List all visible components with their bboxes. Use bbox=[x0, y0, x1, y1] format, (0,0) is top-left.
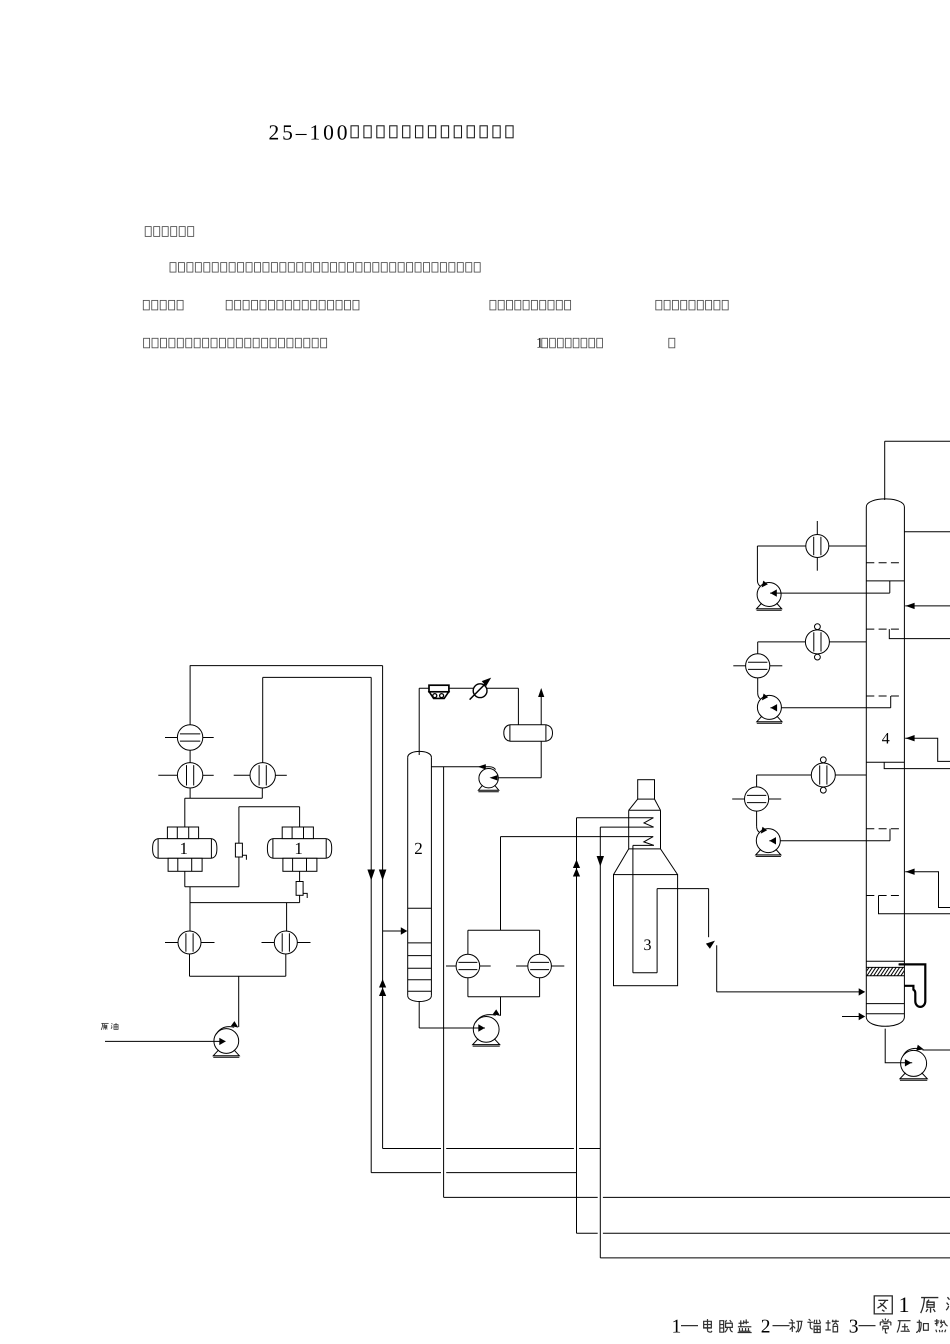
svg-text:4: 4 bbox=[882, 731, 890, 748]
svg-text:3: 3 bbox=[644, 937, 652, 954]
svg-text:1: 1 bbox=[294, 839, 303, 858]
svg-text:2: 2 bbox=[761, 1316, 771, 1337]
svg-text:3: 3 bbox=[849, 1316, 859, 1337]
svg-text:1: 1 bbox=[180, 839, 189, 858]
svg-text:2: 2 bbox=[414, 839, 423, 858]
svg-text:1: 1 bbox=[899, 1292, 910, 1317]
svg-text:25–100: 25–100 bbox=[269, 120, 351, 144]
svg-text:1: 1 bbox=[672, 1316, 682, 1337]
